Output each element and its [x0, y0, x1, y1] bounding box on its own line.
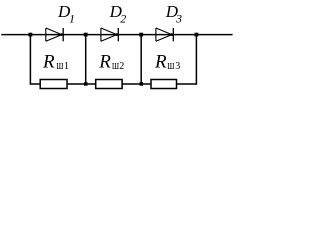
wire: riser between D2 and D3 [140, 35, 142, 84]
svg-text:R: R [42, 51, 55, 72]
svg-text:3: 3 [175, 12, 182, 26]
node E: bottom junction dot between R1/R2 [84, 82, 88, 86]
resistor R1 [40, 80, 67, 89]
resistor R3 [151, 80, 177, 89]
svg-text:2: 2 [119, 61, 124, 72]
wire: bottom rail through resistors [30, 83, 196, 85]
resistor R2 [96, 80, 122, 89]
svg-text:ш: ш [56, 57, 63, 72]
svg-text:1: 1 [64, 61, 69, 72]
svg-text:R: R [154, 51, 167, 72]
svg-text:R: R [98, 51, 111, 72]
wire: top horizontal rail [1, 34, 232, 36]
svg-text:3: 3 [175, 61, 180, 72]
node F: bottom junction dot between R2/R3 [140, 82, 144, 86]
wire: right riser [195, 35, 197, 85]
node B: top junction dot between D1/D2 [84, 33, 88, 37]
node D: top-right junction dot [195, 33, 199, 37]
node A: top-left junction dot [29, 33, 33, 37]
svg-text:1: 1 [69, 12, 75, 26]
svg-text:2: 2 [120, 12, 126, 26]
node C: top junction dot between D2/D3 [139, 33, 143, 37]
diode D1 [46, 28, 63, 41]
diode D3 [156, 28, 173, 41]
svg-text:ш: ш [112, 57, 119, 72]
diode D2 [101, 28, 118, 41]
wire: left riser [29, 35, 31, 85]
svg-text:ш: ш [167, 57, 174, 72]
wire: riser between D1 and D2 [85, 35, 87, 84]
